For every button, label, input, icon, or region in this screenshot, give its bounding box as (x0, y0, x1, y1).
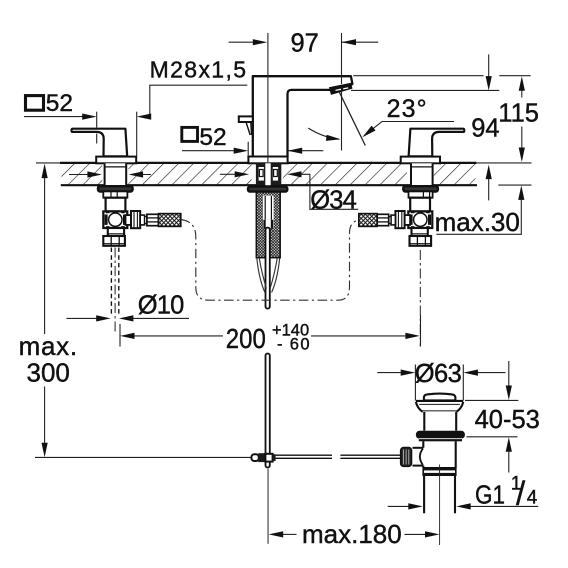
left valve shank through counter (104, 163, 127, 185)
dimension hole arrows left valve (69, 174, 88, 176)
countertop bottom extension line right (498, 184, 531, 186)
svg-text:max.180: max.180 (302, 519, 402, 549)
right valve cartridge box (408, 211, 432, 228)
dimension max.300 (44, 177, 46, 443)
drain flange inner lines (419, 403, 460, 405)
svg-text:97: 97 (291, 30, 319, 58)
svg-text:4: 4 (527, 488, 538, 509)
drain center line (439, 465, 441, 546)
svg-text:52: 52 (199, 124, 226, 151)
svg-text:Ø34: Ø34 (310, 186, 357, 214)
right valve center line (419, 250, 421, 347)
right valve body (410, 198, 430, 212)
bottom reference line (35, 456, 251, 458)
horizontal actuating rod left segment (276, 455, 332, 458)
svg-text:23°: 23° (387, 95, 427, 123)
dimension square52 center (182, 127, 198, 141)
svg-text:Ø10: Ø10 (138, 291, 185, 319)
left valve body (106, 198, 126, 212)
spout escutcheon plate (248, 157, 287, 164)
right valve outlet neck (405, 215, 411, 225)
svg-text:G1: G1 (475, 480, 505, 510)
left valve hose sleeve (140, 215, 144, 225)
countertop bottom edge (61, 184, 477, 186)
left valve outlet neck (126, 215, 132, 225)
drain flange top (416, 400, 463, 402)
dimension diameter 63 (377, 365, 505, 401)
countertop top extension line left (36, 162, 61, 164)
dimension 94 (351, 54, 531, 200)
svg-text:max.30: max.30 (435, 207, 520, 237)
dimension max.30 (436, 199, 521, 234)
dimension 115 (521, 90, 523, 148)
right valve bottom nut (410, 236, 432, 246)
left valve cartridge box (103, 211, 127, 228)
horizontal actuating rod right segment (340, 455, 400, 458)
svg-text:52: 52 (46, 90, 73, 117)
pop-up rod knob on spout (239, 116, 253, 122)
label diameter 34 with leader (220, 173, 236, 175)
dimension max.180 (283, 533, 426, 535)
dimension diameter 10 (67, 317, 190, 319)
svg-text:115: 115 (498, 99, 539, 127)
spout threaded shank (256, 192, 280, 258)
right valve flange nut under counter (403, 186, 438, 191)
drain lever collar (420, 449, 423, 465)
drain bottom flange double band (423, 468, 456, 476)
dimension 200 +140 -60 (120, 315, 421, 347)
left valve center line (114, 248, 116, 334)
right valve hose sleeve (391, 215, 395, 225)
left valve lower body (108, 228, 124, 236)
spout mounting studs through counter (256, 163, 281, 185)
drain pop-up waste: plug cap (424, 394, 456, 401)
spout flange nut under counter (248, 187, 287, 192)
drain lever knob (401, 448, 412, 467)
left valve hex collar (103, 191, 127, 197)
left valve compression nut (131, 211, 140, 228)
right handle (409, 129, 465, 157)
right valve hose ferrule (377, 214, 389, 225)
drain O-ring seal (416, 431, 465, 439)
svg-text:Ø63: Ø63 (415, 360, 462, 388)
svg-text:M28x1,5: M28x1,5 (150, 56, 246, 82)
drain flange cone sides (416, 402, 463, 412)
pop-up rod center line below clamp (267, 469, 269, 544)
dimension square52 left (26, 96, 44, 111)
pop-up rod upper segment (266, 228, 270, 309)
dimension 23 degrees (339, 92, 365, 146)
right valve escutcheon plate (401, 157, 440, 164)
dimension G1 1/4 (388, 505, 539, 507)
spout body (253, 76, 353, 156)
dimension 97 (229, 33, 379, 162)
right valve braided hose end (359, 214, 377, 227)
countertop hatched band (60, 162, 477, 186)
svg-text:300: 300 (27, 358, 70, 388)
right valve hex collar (409, 191, 433, 197)
left valve escutcheon plate (96, 157, 136, 164)
dimension 40-53 (465, 361, 518, 473)
left valve braided hose end (158, 214, 180, 227)
spout aerator (330, 83, 352, 94)
pop-up rod lower segment (266, 354, 270, 468)
left handle (72, 129, 128, 157)
drain tailpipe (423, 475, 425, 513)
left valve hose ferrule (147, 214, 159, 225)
left valve flange nut under counter (98, 186, 133, 191)
supply hose arch curves (257, 258, 280, 293)
pop-up rod clamp joint (251, 453, 275, 462)
svg-text:40-53: 40-53 (475, 406, 540, 434)
svg-text:94: 94 (471, 114, 499, 142)
right valve lower body (412, 228, 428, 236)
countertop top extension line right (476, 162, 531, 164)
svg-text:/: / (516, 475, 526, 512)
countertop top edge (60, 162, 476, 164)
flexible hose routing dash-dot (181, 220, 359, 301)
left valve bottom nut (103, 236, 125, 246)
right valve shank through counter (410, 163, 433, 185)
drain body upper (424, 412, 456, 431)
svg-text:200: 200 (226, 323, 266, 354)
right valve compression nut (395, 211, 404, 228)
drain body lower (423, 441, 455, 467)
left valve threaded stud dashed (Ø10) (111, 248, 118, 316)
svg-text:- 60: - 60 (277, 335, 310, 353)
